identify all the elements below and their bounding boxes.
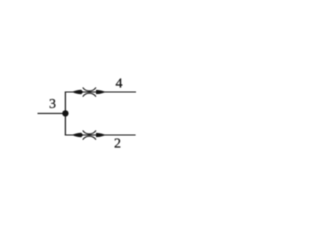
svg-text:4: 4 — [116, 77, 123, 92]
svg-text:3: 3 — [49, 97, 56, 112]
svg-text:2: 2 — [114, 137, 121, 152]
